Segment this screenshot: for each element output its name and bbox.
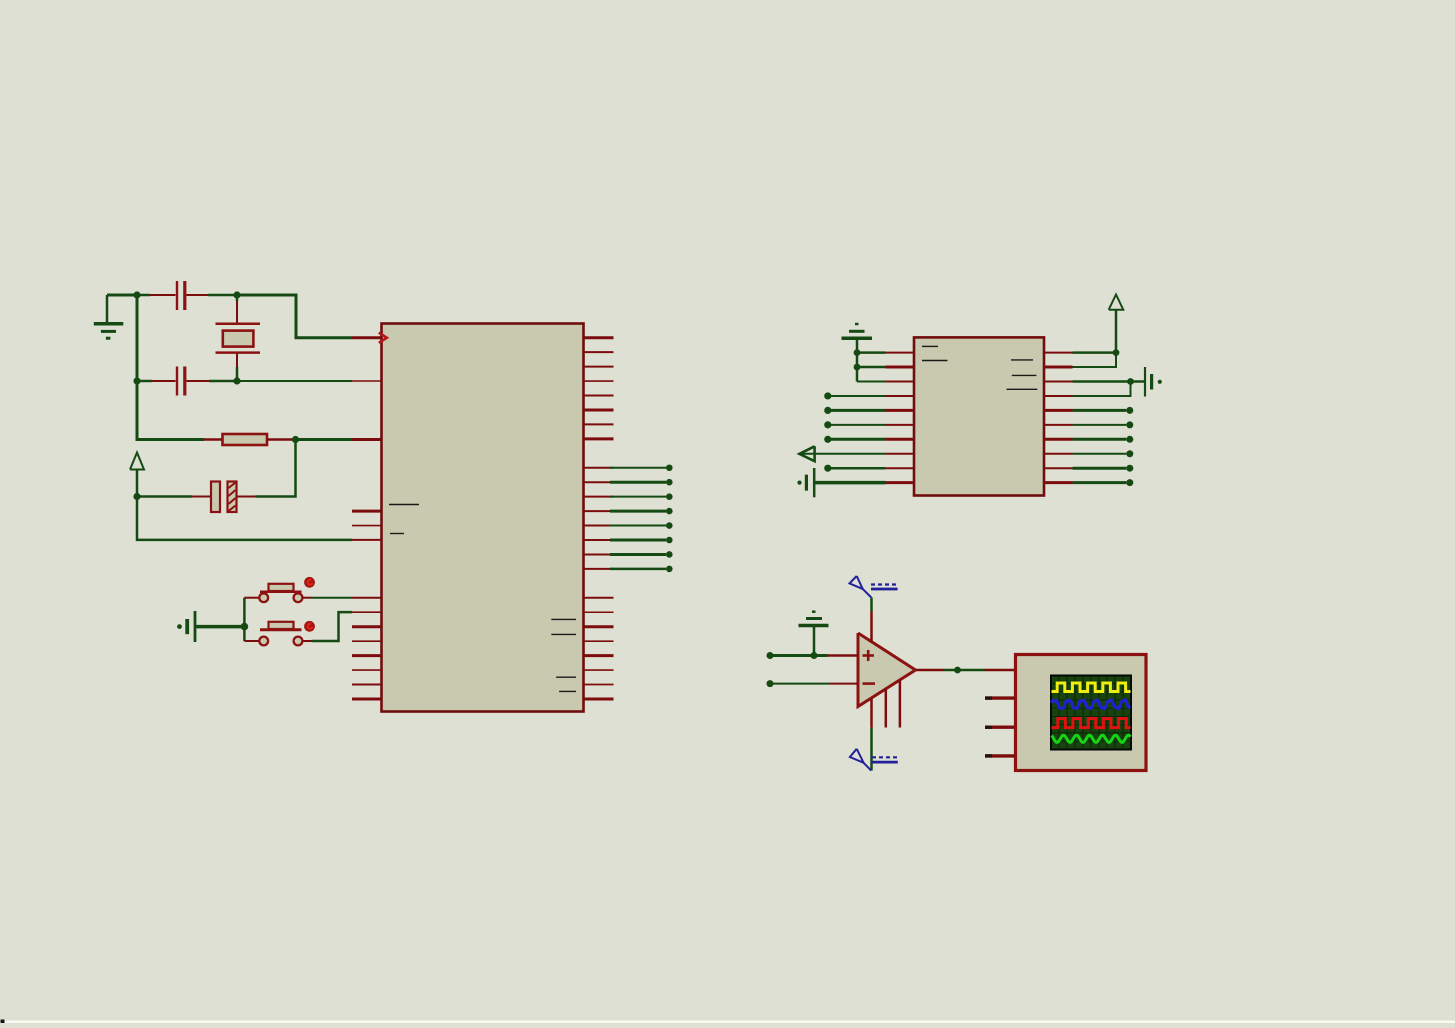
- U1 right pin P1.2: [584, 625, 614, 628]
- U1 right pin P2.4: [584, 525, 614, 527]
- wire to U2 pin 7: [828, 438, 886, 441]
- driver IC U2 body: [914, 337, 1044, 495]
- U1 pin EA: [352, 539, 381, 541]
- wire node E down to C3 right: [256, 440, 296, 497]
- output node dot pin 16: [1126, 421, 1133, 428]
- U1 right pin P2.0: [584, 467, 614, 469]
- input node dot, op-amp -: [767, 680, 774, 687]
- terminal arrow (output) at U2 pin 8: [799, 446, 885, 461]
- junction dot P2.6: [666, 551, 673, 558]
- battery cell B2 at U2 pin 10: [797, 468, 885, 497]
- U1 pin P3.5: [352, 640, 381, 642]
- power terminal T2 (blue flag): [850, 749, 898, 771]
- capacitor C2: [137, 367, 237, 396]
- wire V- to terminal T2: [870, 728, 873, 771]
- U2 right pin 15: [1044, 409, 1073, 412]
- ground GND2 above U2 (inverted bars): [842, 324, 873, 382]
- U2 left pin 10: [886, 481, 915, 484]
- junction node F: [133, 493, 140, 500]
- ground GND1 (top-left): [94, 295, 124, 338]
- capacitor C1: [137, 281, 237, 310]
- wire node B to U1 XTAL1 pin: [237, 295, 352, 338]
- U1 right pin P1.6: [584, 684, 614, 686]
- U1 pin label text (T0): [556, 676, 576, 678]
- input node dot, op-amp +: [767, 652, 774, 659]
- U1 pin label text (TXD): [551, 633, 576, 635]
- power symbol VCC2 (up arrow): [1109, 295, 1124, 353]
- U2 pin label text e: [1007, 388, 1038, 390]
- junction power node: [1113, 349, 1120, 356]
- U2 pin label text a: [922, 345, 938, 347]
- U2 pin label text c: [1011, 359, 1033, 361]
- U1 pin P3.6: [352, 654, 381, 657]
- U2 left pin 6: [886, 424, 915, 426]
- U1 pin label text (P1.0): [389, 504, 419, 506]
- U2 right pin 11: [1044, 352, 1073, 354]
- push button S1: [244, 584, 311, 602]
- scope input pin C: [985, 726, 1014, 729]
- U1 right pin P1.5: [584, 669, 614, 671]
- wire stub P2.3: [610, 510, 666, 513]
- scope input pin D: [985, 754, 1014, 757]
- output node dot pin 15: [1126, 407, 1133, 414]
- wire U2 right pin 19 stub: [1073, 467, 1127, 470]
- wire GND2 to U2 pin2: [857, 366, 886, 369]
- U2 right pin 16: [1044, 424, 1073, 426]
- interactive indicator of S1: [304, 577, 315, 588]
- wire to U2 pin 6: [828, 424, 886, 426]
- waveform channel B (blue sine): [1052, 700, 1131, 709]
- U1 right pin P2.6: [584, 553, 614, 555]
- U2 left pin 4: [886, 395, 915, 397]
- U1 right pin P0.3: [584, 380, 614, 382]
- wire U2 pin13 to battery B3: [1073, 380, 1131, 383]
- junction GND2-pin1: [854, 349, 861, 356]
- junction dot P2.5: [666, 537, 673, 544]
- resistor R1: [204, 434, 296, 445]
- U2 left pin 7: [886, 438, 915, 441]
- U1 right pin P1.1: [584, 611, 614, 613]
- wire stub P2.0: [610, 467, 666, 469]
- U2 right pin 19: [1044, 467, 1073, 469]
- wire GND2 to U2 pin1: [857, 351, 886, 354]
- op-amp offset pin 2: [899, 680, 902, 728]
- wire node D to U1 XTAL2 pin: [237, 380, 352, 382]
- interactive indicator of S2: [304, 621, 315, 632]
- U1 pin RST: [352, 438, 381, 441]
- scope screen grid: [1051, 676, 1131, 750]
- input node dot, U2 pin 5: [824, 407, 831, 414]
- push button S2: [244, 622, 311, 646]
- U1 pin P3.8: [352, 684, 381, 686]
- battery cell B3 (right): [1131, 367, 1162, 397]
- junction dot P2.4: [666, 522, 673, 529]
- wire GND1 to node A: [107, 294, 137, 297]
- junction node E: [292, 436, 299, 443]
- output node dot pin 18: [1126, 450, 1133, 457]
- U1 pin P3.4: [352, 625, 381, 628]
- op-amp V- pin: [870, 698, 873, 728]
- waveform channel D (green sine): [1052, 735, 1131, 742]
- bottom-left cursor mark: [1, 1020, 5, 1024]
- U1 right pin P1.7: [584, 697, 614, 700]
- U1 clock pin arrowhead: [379, 333, 387, 343]
- wire to U2 pin 5: [828, 409, 886, 412]
- crystal X1: [216, 295, 261, 381]
- wire GND2 elbow to U2 pin3: [857, 381, 886, 383]
- U1 pin XTAL2: [352, 380, 381, 382]
- U2 right pin 18: [1044, 453, 1073, 455]
- junction node B: [233, 291, 240, 298]
- power symbol VCC1 (up arrow): [130, 453, 144, 497]
- U1 right pin P0.6: [584, 423, 614, 425]
- U1 right pin P0.0: [584, 336, 614, 339]
- U1 right pin P0.5: [584, 408, 614, 411]
- junction node D: [233, 377, 240, 384]
- wire to op-amp + input: [770, 654, 828, 657]
- wire output to scope: [944, 669, 985, 672]
- wire to op-amp - input: [770, 683, 830, 685]
- wire stub P2.4: [610, 525, 666, 527]
- bottom edge strip: [0, 1021, 1455, 1024]
- U1 right pin P0.2: [584, 366, 614, 368]
- waveform channel A (yellow square): [1052, 683, 1131, 692]
- wire U2 right pin 17 stub: [1073, 438, 1127, 441]
- scope input pin B: [985, 696, 1014, 699]
- U1 pin P3.7: [352, 669, 381, 671]
- wire U2 pin12 elbow to power node: [1073, 353, 1117, 367]
- U2 right pin 17: [1044, 438, 1073, 441]
- junction node A: [133, 291, 140, 298]
- wire vertical node A to resistor row: [137, 295, 204, 440]
- U1 right pin P2.7: [584, 568, 614, 570]
- op-amp offset pin 1: [885, 689, 888, 728]
- wire stub P2.5: [610, 539, 666, 542]
- junction node H: [811, 652, 818, 659]
- wire stub P2.6: [610, 553, 666, 556]
- ground GND3 above node H: [799, 612, 829, 656]
- junction dot P2.2: [666, 493, 673, 500]
- U1 right pin P0.7: [584, 437, 614, 440]
- U2 right pin 13: [1044, 381, 1073, 383]
- U1 right pin P0.4: [584, 395, 614, 397]
- output node dot pin 20: [1126, 479, 1133, 486]
- power terminal T1 (blue flag): [850, 576, 898, 598]
- U1 pin P1.0: [352, 510, 381, 513]
- junction output node: [954, 667, 961, 674]
- U1 right pin P0.1: [584, 351, 614, 353]
- op-amp - input pin: [830, 683, 858, 685]
- U1 pin XTAL1 (clock pin with arrow): [352, 336, 381, 339]
- waveform channel C (red square): [1052, 719, 1131, 728]
- U1 pin label text (T1): [559, 690, 576, 692]
- wire to U2 pin 4: [828, 395, 886, 397]
- junction dot P2.0: [666, 464, 673, 471]
- op-amp V+ pin: [870, 612, 873, 643]
- U1 pin P3.3: [352, 611, 381, 613]
- junction node G: [241, 623, 249, 631]
- op-amp + input pin: [828, 654, 859, 657]
- wire node E to U1 RST pin: [296, 438, 353, 441]
- output node dot pin 19: [1126, 465, 1133, 472]
- U2 left pin 1: [886, 352, 915, 354]
- op-amp U3 body: [858, 633, 916, 707]
- U2 left pin 5: [886, 409, 915, 412]
- op-amp minus sign: [863, 682, 876, 685]
- U1 right pin P2.5: [584, 539, 614, 541]
- op-amp plus sign: [863, 650, 875, 661]
- U2 left pin 3: [886, 381, 915, 383]
- U1 right pin P1.0: [584, 597, 614, 599]
- U1 right pin P1.4: [584, 654, 614, 657]
- wire node F to U1 EA pin: [137, 497, 352, 540]
- battery cell B1 (left): [177, 611, 195, 642]
- U2 pin label text b: [922, 360, 948, 362]
- junction dot P2.7: [666, 566, 673, 573]
- U2 left pin 2: [886, 366, 915, 369]
- U2 left pin 8: [886, 453, 915, 455]
- junction GND2-pin2: [854, 364, 861, 371]
- wire S2 to U1 pin (L-shape): [312, 612, 353, 641]
- junction dot P2.1: [666, 479, 673, 486]
- wire B1 to node G: [196, 625, 245, 629]
- wire stub P2.1: [610, 481, 666, 484]
- wire to U2 pin 9: [828, 467, 886, 470]
- scope input pin A: [985, 669, 1016, 672]
- wire V+ to terminal T1: [870, 598, 873, 612]
- input node dot, U2 pin 6: [824, 421, 831, 428]
- U1 right pin P2.3: [584, 510, 614, 512]
- U1 pin P3.9: [352, 697, 381, 700]
- junction dot P2.3: [666, 508, 673, 515]
- wire U2 pin11 to power node: [1073, 351, 1117, 354]
- U1 right pin P2.1: [584, 481, 614, 483]
- wire U2 right pin 16 stub: [1073, 424, 1127, 426]
- U1 right pin P2.2: [584, 496, 614, 498]
- wire node G vertical to buttons: [243, 598, 246, 641]
- wire U2 right pin 18 stub: [1073, 453, 1127, 455]
- input node dot, U2 pin 7: [824, 436, 831, 443]
- oscilloscope SCOPE1 body: [1016, 655, 1147, 771]
- capacitor C3 (polarized): [137, 482, 256, 513]
- wire U2 right pin 15 stub: [1073, 409, 1127, 412]
- wire stub P2.7: [610, 568, 666, 571]
- output node dot pin 17: [1126, 436, 1133, 443]
- U2 pin label text d: [1012, 374, 1037, 376]
- microcontroller U1 body: [382, 324, 584, 712]
- junction battery node: [1127, 378, 1134, 385]
- U1 pin label text (P1.1): [390, 533, 404, 535]
- U1 pin P3.2: [352, 597, 381, 599]
- U2 right pin 20: [1044, 481, 1073, 484]
- wire S1 to U1 pin: [312, 597, 353, 599]
- input node dot, U2 pin 9: [824, 465, 831, 472]
- scope screen: [1051, 676, 1131, 750]
- wire U2 right pin 20 stub: [1073, 481, 1127, 484]
- op-amp output pin: [916, 669, 945, 672]
- wire U2 pin14 elbow to battery node: [1073, 382, 1131, 396]
- U2 right pin 14: [1044, 395, 1073, 397]
- input node dot, U2 pin 4: [824, 392, 831, 399]
- wire stub P2.2: [610, 496, 666, 498]
- U1 pin label text (RXD): [551, 618, 576, 620]
- U2 left pin 9: [886, 467, 915, 469]
- U1 pin P1.1: [352, 525, 381, 527]
- U1 right pin P1.3: [584, 640, 614, 642]
- U2 right pin 12: [1044, 366, 1073, 369]
- junction node C: [133, 377, 140, 384]
